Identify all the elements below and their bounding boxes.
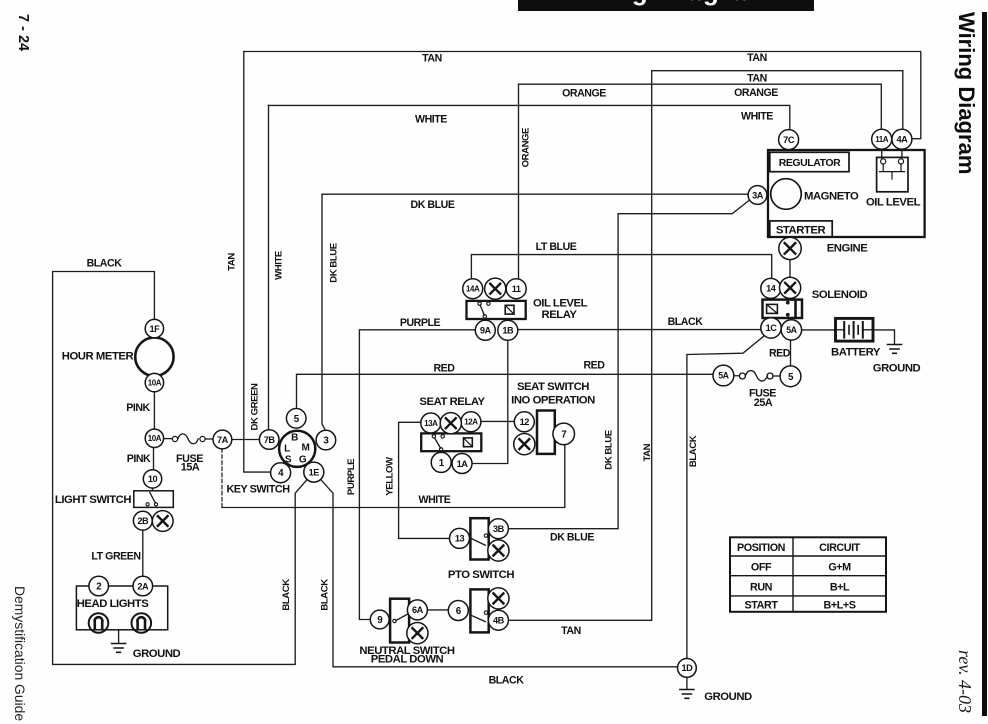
wire 12A to 12 [481,420,514,422]
connector 13A [421,413,441,433]
svg-text:WHITE: WHITE [741,111,773,123]
connector 4B [488,610,508,630]
svg-text:14: 14 [766,284,777,294]
svg-text:INO OPERATION: INO OPERATION [511,394,595,406]
wire 10 to light switch [152,488,154,491]
svg-text:OIL LEVEL: OIL LEVEL [533,297,588,309]
svg-text:10A: 10A [148,379,162,388]
wire headlights ground stem [118,630,120,643]
connector 2B [133,511,152,530]
svg-text:10: 10 [148,474,158,484]
wire TAN / DK GREEN left riser down to key switch 4 [244,52,271,473]
svg-text:10A: 10A [148,434,162,443]
svg-text:PEDAL DOWN: PEDAL DOWN [371,654,444,666]
svg-text:BLACK: BLACK [668,316,704,328]
connector 1B [498,320,518,340]
svg-text:DK BLUE: DK BLUE [411,199,455,211]
engine label [827,243,869,255]
connector 7A [213,430,232,449]
svg-text:1D: 1D [681,663,693,673]
svg-text:BLACK: BLACK [281,579,292,611]
connector 1C [761,318,781,338]
wire 1D ground stem [686,677,688,688]
wire 6A to 6 [428,609,448,611]
connector X (unused) [779,237,801,259]
svg-text:4B: 4B [493,616,505,626]
seat switch box [511,381,595,454]
svg-text:BLACK: BLACK [688,435,699,467]
wire WHITE riser down to 7B [268,105,270,430]
svg-text:2A: 2A [137,581,149,591]
svg-text:1B: 1B [502,326,514,336]
svg-text:PINK: PINK [127,453,151,465]
svg-text:1C: 1C [766,323,778,333]
oil level relay box [467,297,588,321]
fuse 25A [734,371,780,409]
svg-text:7C: 7C [783,135,795,145]
connector 5 [780,366,801,387]
connector 5 [286,409,306,429]
connector 11A [872,129,892,149]
connector 5A [713,365,734,386]
svg-text:YELLOW: YELLOW [384,456,395,496]
right margin rev. 4-03 (rotated) [958,649,960,651]
svg-text:1E: 1E [309,467,320,477]
connector X (unused) [780,277,801,298]
svg-text:5A: 5A [718,371,729,381]
svg-text:REGULATOR: REGULATOR [779,157,841,169]
svg-text:ORANGE: ORANGE [734,87,778,99]
svg-text:RED: RED [583,360,605,372]
svg-text:OIL LEVEL: OIL LEVEL [866,197,921,209]
wire battery to engine ground [873,330,895,345]
svg-text:M: M [302,442,310,453]
neutral switch box [359,599,454,666]
wire lower 10A to 10 [153,447,155,470]
connector X (unused) [488,540,509,561]
connector X (unused) [514,434,535,455]
connector 11 [506,279,526,299]
position/circuit table [730,537,886,612]
connector 6 [448,601,468,621]
hour meter [62,338,174,376]
svg-text:WHITE: WHITE [273,250,284,280]
svg-text:B+L+S: B+L+S [824,600,856,612]
wire BLACK hour meter left loop to 1E left branch [53,272,308,665]
wire BLACK 1C to 1D riser [687,335,765,658]
svg-text:GROUND: GROUND [133,648,181,660]
svg-text:TAN: TAN [226,253,237,271]
svg-text:DK BLUE: DK BLUE [328,242,339,283]
connector X (unused) [407,623,428,644]
svg-text:PURPLE: PURPLE [346,458,357,495]
connector X (unused) [152,511,173,532]
svg-text:11: 11 [512,284,521,294]
svg-text:RUN: RUN [750,581,773,593]
svg-text:GROUND: GROUND [704,691,752,703]
svg-text:12A: 12A [464,418,478,427]
svg-text:BLACK: BLACK [489,675,525,687]
key switch body [226,431,315,496]
wire LT GREEN 2B to 2A [142,530,144,576]
svg-text:DK BLUE: DK BLUE [603,429,614,470]
svg-text:ORANGE: ORANGE [520,127,531,167]
connector 1D [678,659,697,678]
svg-text:PTO SWITCH: PTO SWITCH [448,569,515,581]
svg-text:3A: 3A [752,190,764,200]
wire DK BLUE rail to 3A [322,193,748,195]
svg-text:B+L: B+L [830,581,850,593]
head light lamp right [132,613,152,633]
svg-text:HEAD LIGHTS: HEAD LIGHTS [77,598,150,610]
wire WHITE top rail to 7C [269,105,790,129]
wire DK BLUE from PTO 3B up and over to 3A [508,201,748,529]
head light lamp left [89,613,109,633]
pto switch box [448,518,515,581]
svg-text:SOLENOID: SOLENOID [812,289,868,301]
wire BLACK 1E right branch down to 1D [320,479,677,667]
connector 10 [143,470,161,488]
svg-text:START: START [745,600,779,612]
engine box [768,150,925,237]
svg-text:9A: 9A [480,326,492,336]
svg-text:13A: 13A [424,419,438,428]
fuse 15A [164,434,214,474]
wire PURPLE 9A to 9 [359,330,475,620]
svg-text:TAN: TAN [561,625,581,637]
connector 3 [316,430,336,450]
svg-text:ENGINE: ENGINE [827,243,869,255]
svg-text:KEY SWITCH: KEY SWITCH [226,484,290,496]
svg-text:TAN: TAN [642,443,653,461]
connector 2A [133,576,153,596]
right margin vertical bar [982,12,987,716]
light switch box [55,491,173,508]
svg-text:DK GREEN: DK GREEN [249,383,260,431]
magneto circle [771,179,859,210]
connector 7B [259,430,279,450]
connector X (unused) [488,588,509,609]
svg-text:DK BLUE: DK BLUE [550,532,594,544]
svg-text:7A: 7A [217,435,229,445]
svg-text:TAN: TAN [747,73,767,85]
svg-text:11A: 11A [875,135,889,144]
wire ORANGE rail to 11A [519,84,882,129]
svg-text:TAN: TAN [422,52,442,64]
wire DK BLUE riser down to key switch 3 [322,194,326,430]
connector 9 [370,610,389,629]
right margin title Wiring Diagram (rotated) [953,11,955,13]
wire BLACK 1B to 1C [518,329,761,331]
head lights box [76,586,167,630]
wire solenoid 5A down to fuse 5 [790,340,792,366]
connector 5A [781,320,801,340]
svg-text:MAGNETO: MAGNETO [804,191,859,203]
wire 11A to oil level sensor [881,149,883,158]
svg-text:G: G [299,454,307,465]
wire WHITE 7A drop (dashed in scan) [221,449,223,508]
svg-text:2B: 2B [137,516,149,526]
connector 7 [553,423,575,445]
regulator box [770,152,849,171]
ground symbol 1D [680,690,752,704]
wire 7A to 7B [232,439,260,441]
page number 7-24 (rotated) [13,14,31,54]
connector 12A [461,412,481,432]
svg-text:SEAT RELAY: SEAT RELAY [419,396,485,408]
svg-text:LIGHT SWITCH: LIGHT SWITCH [55,494,131,506]
svg-text:12: 12 [520,417,530,427]
svg-text:LT BLUE: LT BLUE [536,241,577,253]
starter box [770,221,832,237]
connector 3B [488,519,508,539]
connector X (unused) [485,278,506,299]
svg-text:SEAT SWITCH: SEAT SWITCH [517,381,589,393]
svg-text:HOUR METER: HOUR METER [62,351,134,363]
svg-text:13: 13 [455,534,465,544]
wire 4A to oil level sensor [901,149,903,158]
svg-text:G+M: G+M [828,561,851,573]
seat relay box [419,396,485,451]
svg-text:PURPLE: PURPLE [400,317,441,329]
title banner (cropped) [518,0,814,11]
oil level sensor box [866,157,921,208]
svg-text:BLACK: BLACK [87,257,123,269]
wire ORANGE riser down to oil level relay 11 [518,84,520,279]
wire TAN second rail: 4B to engine 4A top [508,71,902,621]
svg-text:POSITION: POSITION [737,542,786,554]
wire RED key 5 to fuse 5A [297,374,713,407]
svg-text:ORANGE: ORANGE [562,88,606,100]
connector 7C [779,130,799,150]
wire LT BLUE from 14A to solenoid 14 [471,255,771,279]
connector 9A [475,320,495,340]
svg-text:14A: 14A [466,285,480,294]
svg-text:TAN: TAN [747,52,767,64]
connector 1 [431,452,451,472]
svg-text:1A: 1A [457,459,469,469]
connector 1A [452,454,472,474]
svg-text:7B: 7B [264,435,276,445]
connector 14A [463,279,483,299]
svg-text:LT GREEN: LT GREEN [91,550,140,562]
svg-text:RED: RED [769,347,791,359]
connector 12 [514,412,534,432]
connector 3A [748,186,767,205]
svg-text:STARTER: STARTER [776,224,826,236]
ground symbol engine/battery [873,345,921,375]
connector 6A [407,600,427,620]
wire solenoid 5A to battery [801,329,836,331]
forward/reverse switch box (6 / X / 4B) [470,589,488,632]
solenoid box [763,289,868,318]
svg-text:15A: 15A [181,462,200,474]
connector 4A [892,129,912,149]
svg-text:25A: 25A [754,397,773,409]
svg-text:PINK: PINK [126,402,150,414]
connector 1E [304,462,324,482]
connector 1F [145,319,163,337]
svg-text:GROUND: GROUND [873,363,921,375]
connector 13 [450,528,470,548]
svg-text:BATTERY: BATTERY [831,346,881,358]
connector 10A [145,429,163,447]
svg-text:RELAY: RELAY [542,309,578,321]
svg-text:RED: RED [433,362,455,374]
connector 2 [89,576,109,596]
connector X (unused) [440,413,461,434]
svg-text:OFF: OFF [751,561,772,573]
connector 14 [761,278,781,298]
svg-text:6A: 6A [412,605,424,615]
wire WHITE 7A to seat 7 horizontal run [222,445,565,508]
wire 1B to 1A [472,340,508,463]
svg-text:WHITE: WHITE [419,494,451,506]
ground symbol headlights [112,644,181,661]
svg-text:B: B [291,432,298,443]
connector 4 [271,463,291,483]
svg-text:1F: 1F [149,324,160,334]
svg-text:WHITE: WHITE [415,113,447,125]
wire hour meter 10A to lower 10A [153,392,155,430]
svg-text:BLACK: BLACK [319,579,330,611]
svg-text:5A: 5A [786,325,797,335]
svg-text:L: L [284,443,290,454]
wire starter X to solenoid X [789,260,791,277]
svg-text:3B: 3B [493,524,505,534]
connector 10A [145,373,163,391]
svg-text:4A: 4A [896,135,908,145]
footer Demystification Guide (rotated) [13,585,15,587]
wire YELLOW 13A to PTO 13 [399,422,450,538]
wire TAN top rail (7A/4 riser to 4A right) [244,52,921,139]
battery [831,318,881,358]
svg-text:CIRCUIT: CIRCUIT [819,542,860,554]
